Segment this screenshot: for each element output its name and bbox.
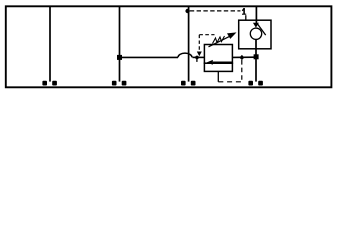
port P3 right pad bbox=[191, 81, 196, 86]
spring zigzag bbox=[213, 36, 225, 44]
relief valve lower chamber bbox=[204, 63, 232, 71]
manifold outline border bbox=[6, 6, 332, 87]
check valve seat diagonal bbox=[258, 24, 266, 35]
port P3 left pad bbox=[181, 81, 186, 86]
port line P2 bbox=[119, 6, 121, 81]
port P1 left pad bbox=[42, 81, 47, 86]
pilot sense dashed line bbox=[198, 35, 200, 52]
pilot dashed line to net 1 bbox=[190, 10, 241, 12]
node on P3 at pilot takeoff bbox=[185, 9, 189, 13]
port line P3 bbox=[188, 6, 190, 81]
check valve ball bbox=[250, 28, 261, 39]
diamond node on wire bbox=[239, 55, 244, 60]
wire crossover hop over P3 bbox=[178, 53, 192, 57]
check valve CV body bbox=[239, 20, 271, 49]
drain dashed vertical to node bbox=[241, 60, 243, 82]
flow arrowhead in valve bbox=[207, 60, 213, 65]
net 1 drop segment bbox=[245, 15, 247, 20]
main wire at y57 bbox=[120, 56, 179, 58]
wire from hop to valve bbox=[193, 56, 205, 58]
wire valve to check valve bbox=[232, 56, 254, 58]
port P2 left pad bbox=[112, 81, 117, 86]
relief valve RV main body bbox=[204, 45, 232, 64]
port P4 right pad bbox=[258, 81, 263, 86]
check valve inlet line bbox=[255, 6, 257, 23]
drain riser solid bbox=[217, 71, 219, 81]
adjustment arrowhead bbox=[227, 32, 237, 39]
flow arrow shaft bbox=[213, 61, 233, 63]
net label 1 bbox=[242, 8, 246, 15]
check valve seat triangle bbox=[253, 23, 259, 28]
junction dot at pilot tap bbox=[195, 56, 199, 60]
port P1 right pad bbox=[52, 81, 57, 86]
node on P2 at wire junction bbox=[117, 55, 122, 60]
port P4 left pad bbox=[248, 81, 253, 86]
port P2 right pad bbox=[122, 81, 127, 86]
adjustment arrow shaft bbox=[209, 36, 231, 47]
pilot sense arrowhead bbox=[197, 52, 202, 57]
drain dashed bottom run bbox=[218, 81, 242, 83]
stub below junction dot bbox=[196, 57, 198, 62]
check valve outlet line / port P4 bbox=[255, 39, 257, 81]
port line P1 bbox=[49, 6, 51, 81]
node at CV outlet and wire bbox=[254, 54, 259, 59]
cavity dashed top edge bbox=[199, 34, 214, 36]
